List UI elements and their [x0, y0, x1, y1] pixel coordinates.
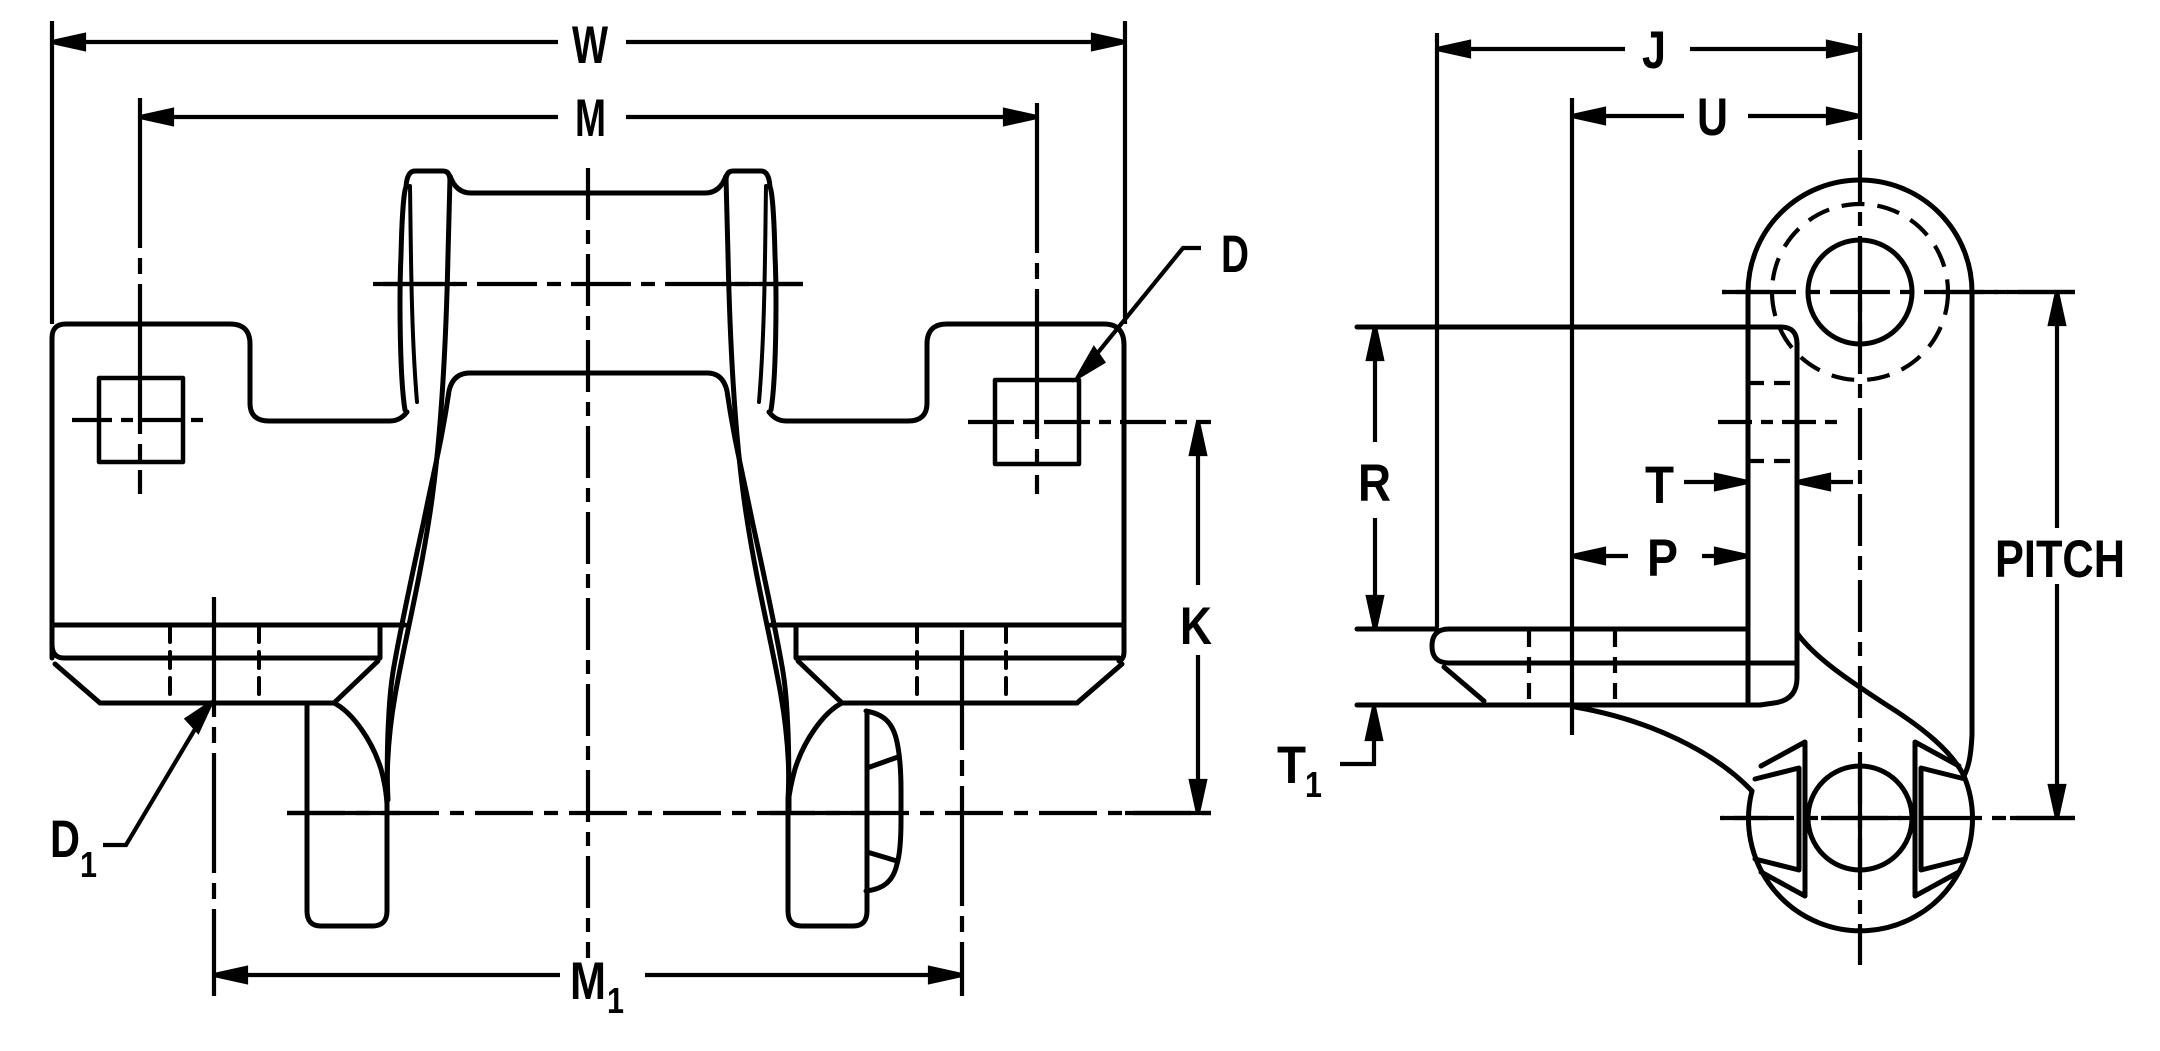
M1 right extension / D1 hole centerline: [960, 630, 964, 996]
barrel top edge: [450, 176, 726, 193]
right outer edge: [1964, 292, 1972, 776]
svg-text:R: R: [1358, 454, 1391, 513]
K arrowheads: [1191, 422, 1205, 813]
svg-text:M: M: [575, 89, 606, 148]
T dimension right arrow: [1799, 480, 1853, 484]
hook left fillet: [1575, 707, 1752, 791]
band line 1 right: [771, 623, 1123, 628]
D1 leader: [103, 709, 207, 845]
P dimension line: [1572, 554, 1746, 558]
hook outer arc: [1748, 776, 1972, 931]
bottom pin horizontal centerline: [1720, 816, 2075, 820]
J arrowheads: [1437, 42, 1860, 56]
svg-text:J: J: [1642, 21, 1666, 80]
barrel horizontal centerline: [1722, 290, 2075, 294]
barrel vertical centerline: [1858, 33, 1862, 140]
left prong outer: [1761, 742, 1805, 896]
right ear inner edge + tongue outer right: [726, 178, 789, 812]
U extension left / D1 centerline side: [1570, 98, 1574, 735]
J dimension line: [1437, 47, 1860, 51]
wing bar with rounded tip: [1432, 629, 1748, 663]
D leader arrowhead: [1078, 349, 1103, 377]
T dimension left arrow: [1684, 480, 1746, 484]
band junction vertical right: [794, 625, 799, 658]
left ear inner edge + tongue outer left + leg right edge: [387, 178, 450, 812]
barrel centerline front: [373, 282, 803, 286]
left ear ellipse arc: [410, 186, 417, 402]
M arrowheads: [140, 110, 1037, 124]
boss diagonal bottom: [867, 852, 897, 861]
leg centerline solid ticks: [287, 811, 1211, 815]
square hole centerline side: [1718, 420, 1840, 424]
plate right edge: [1760, 344, 1797, 705]
D leader: [1078, 248, 1201, 377]
pin circle bottom: [1808, 766, 1912, 870]
svg-text:1: 1: [1305, 764, 1322, 805]
svg-text:T: T: [1277, 736, 1306, 795]
svg-text:1: 1: [80, 844, 97, 885]
right prong inner: [1921, 768, 1965, 870]
P arrowheads: [1572, 549, 1748, 563]
right wing outline: [769, 324, 1124, 661]
M dimension line: [140, 115, 1037, 119]
chamfer left inner: [335, 661, 378, 702]
svg-text:1: 1: [607, 980, 624, 1021]
svg-text:U: U: [1697, 88, 1728, 147]
svg-text:M: M: [570, 952, 606, 1011]
svg-text:T: T: [1645, 456, 1674, 515]
square hole right: [995, 380, 1079, 464]
left edge bottom corner: [52, 644, 64, 658]
side centerline solid ticks: [1722, 290, 2075, 294]
W extension left: [50, 21, 54, 324]
K dimension line: [1196, 422, 1200, 813]
R arrowheads: [1368, 327, 1382, 629]
R dimension line: [1373, 327, 1377, 629]
tongue inner right: [707, 373, 789, 800]
band line 1 left: [53, 623, 405, 628]
U arrowheads: [1572, 109, 1860, 123]
U dimension line: [1572, 114, 1860, 118]
svg-text:W: W: [572, 16, 608, 75]
PITCH dimension line: [2055, 292, 2059, 818]
J extension left: [1435, 33, 1439, 627]
plate left edge: [1746, 292, 1751, 705]
square hole hidden bottom: [1748, 459, 1797, 463]
M1 arrowheads: [214, 968, 962, 982]
D1 leader arrowhead: [187, 703, 211, 731]
W arrowheads: [52, 35, 1125, 49]
left square hole centerline horizontal: [72, 418, 210, 422]
left leg outline: [307, 703, 387, 926]
tongue top edge: [470, 371, 707, 376]
left leg fillet: [334, 703, 387, 804]
square hole hidden top: [1748, 381, 1797, 385]
T1 leader: [1340, 712, 1374, 764]
hidden hole edge dashed left pair: [170, 626, 259, 703]
square hole left: [99, 378, 183, 462]
ledge top edge: [1357, 327, 1797, 344]
right ear outer edge: [726, 171, 776, 410]
right prong outer: [1915, 742, 1959, 896]
W extension right: [1123, 21, 1127, 324]
boss diagonal top: [867, 757, 898, 768]
W dimension line: [52, 40, 1125, 44]
D1 hole hidden edges side: [1529, 631, 1615, 705]
band line 2 left: [64, 656, 379, 661]
bottom plate top edge L2: [1449, 661, 1795, 666]
centerline solid tick over left ear: [373, 282, 803, 286]
band line 3 right: [841, 701, 1077, 706]
chamfer right inner: [798, 661, 841, 702]
right square hole centerline horizontal / K top reference: [968, 420, 1211, 424]
svg-text:D: D: [1221, 225, 1249, 284]
band line 3 left: [100, 701, 335, 706]
svg-text:P: P: [1647, 529, 1678, 588]
svg-text:D: D: [50, 810, 80, 869]
M1 dimension line: [214, 973, 962, 977]
band junction vertical left: [378, 625, 383, 658]
right leg fillet: [788, 703, 842, 804]
chamfer left outer: [55, 664, 100, 703]
T1 arrowhead: [1367, 707, 1381, 739]
bottom plate chamfer: [1444, 667, 1484, 701]
svg-text:PITCH: PITCH: [1995, 530, 2125, 589]
pin hole circle top: [1808, 240, 1912, 344]
svg-text:K: K: [1180, 597, 1212, 656]
hidden hole edge dashed right pair: [917, 626, 1006, 703]
center vertical dashed line front: [586, 168, 590, 958]
tongue inner left: [387, 373, 470, 800]
left prong inner: [1755, 768, 1799, 870]
left wing outline: [52, 324, 407, 658]
right leg outline: [788, 712, 867, 926]
wing bar top reference segment: [1357, 627, 1437, 632]
right square hole centerline vertical / M extension: [1035, 103, 1039, 494]
right ear ellipse arc: [759, 186, 766, 402]
M1 left extension / D1 hole centerline: [212, 597, 216, 996]
barrel pitch dashed circle: [1772, 204, 1948, 380]
chamfer right outer: [1077, 664, 1122, 703]
plate right S-curve to hook: [1797, 633, 1964, 776]
leg centerline front (K bottom reference): [287, 811, 1211, 815]
bottom plate bottom edge L3: [1357, 703, 1760, 708]
PITCH arrowheads: [2050, 292, 2064, 818]
barrel outer circle: [1748, 180, 1972, 292]
left square hole centerline vertical / M extension: [138, 98, 142, 494]
band line 2 right: [797, 656, 1119, 661]
left ear outer edge: [400, 171, 450, 410]
right leg boss: [866, 711, 901, 891]
